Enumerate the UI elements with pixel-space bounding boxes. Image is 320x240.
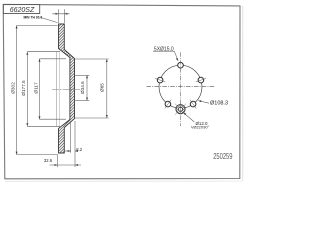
svg-text:Ø108.3: Ø108.3 (210, 100, 228, 106)
svg-text:5XØ15.0: 5XØ15.0 (154, 46, 174, 52)
svg-text:VØ22X90°: VØ22X90° (191, 126, 209, 130)
svg-text:Ø302: Ø302 (10, 82, 15, 94)
svg-text:Ø65: Ø65 (100, 83, 105, 92)
svg-text:Ø34.6: Ø34.6 (80, 81, 85, 94)
svg-text:6620SZ: 6620SZ (10, 7, 35, 14)
svg-text:Ø177.5: Ø177.5 (21, 80, 26, 96)
svg-text:Ø117: Ø117 (33, 82, 38, 94)
svg-text:250259: 250259 (213, 151, 233, 161)
svg-text:MIN TH 30.6: MIN TH 30.6 (24, 15, 43, 19)
svg-text:8.2: 8.2 (76, 147, 82, 152)
svg-text:32.6: 32.6 (44, 158, 53, 163)
